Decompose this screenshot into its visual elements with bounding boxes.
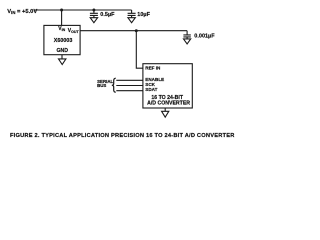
svg-text:0.001µF: 0.001µF bbox=[194, 33, 215, 39]
node junction V_IN pin bbox=[60, 9, 63, 12]
svg-text:GND: GND bbox=[57, 48, 69, 54]
svg-text:VOUT: VOUT bbox=[68, 28, 80, 34]
capacitor C3 plates bbox=[183, 35, 190, 37]
wire V_OUT rail bbox=[80, 30, 187, 32]
svg-text:0.5µF: 0.5µF bbox=[100, 12, 115, 18]
svg-text:VIN: VIN bbox=[58, 26, 65, 32]
svg-text:A/D CONVERTER: A/D CONVERTER bbox=[147, 100, 190, 106]
wire V_IN down to regulator bbox=[61, 10, 63, 25]
capacitor C3 lower stub bbox=[186, 37, 188, 39]
capacitor C2 10uF plates bbox=[128, 13, 136, 15]
capacitor C2 lower stub bbox=[131, 15, 133, 17]
wire SCK bbox=[116, 85, 143, 87]
A/D converter U2 box bbox=[143, 64, 192, 108]
node junction C1 bbox=[92, 9, 95, 12]
capacitor C1 0.5uF stub bbox=[93, 10, 95, 13]
ground under U1 bbox=[59, 59, 66, 65]
ground under U2 bbox=[162, 111, 169, 117]
ground under C3 bbox=[184, 39, 191, 44]
capacitor C1 lower stub bbox=[93, 15, 95, 17]
wire ENABLE bbox=[116, 79, 143, 81]
regulator U1 X60003 box bbox=[44, 25, 80, 54]
svg-text:SDAT: SDAT bbox=[145, 87, 157, 92]
capacitor C2 10uF stub bbox=[131, 10, 133, 13]
capacitor C1 0.5uF plates bbox=[90, 13, 98, 15]
svg-text:BUS: BUS bbox=[97, 83, 106, 88]
svg-text:FIGURE 2. TYPICAL APPLICATION: FIGURE 2. TYPICAL APPLICATION PRECISION … bbox=[10, 133, 235, 139]
svg-text:REF IN: REF IN bbox=[145, 66, 161, 71]
bus brace bbox=[112, 78, 116, 92]
svg-text:VIN = +5.0V: VIN = +5.0V bbox=[7, 9, 37, 15]
svg-text:10µF: 10µF bbox=[137, 12, 150, 18]
wire U2 GND stub bbox=[164, 108, 166, 111]
capacitor C3 0.001uF stub bbox=[186, 31, 188, 35]
node junction REF IN bbox=[135, 29, 138, 32]
wire REF IN vertical bbox=[136, 31, 143, 68]
svg-text:X60003: X60003 bbox=[54, 38, 73, 44]
wire U1 GND stub bbox=[61, 55, 63, 59]
wire V_IN top rail bbox=[34, 9, 132, 11]
ground under C1 bbox=[90, 18, 97, 23]
wire SDAT bbox=[116, 90, 143, 92]
ground under C2 bbox=[128, 18, 135, 23]
